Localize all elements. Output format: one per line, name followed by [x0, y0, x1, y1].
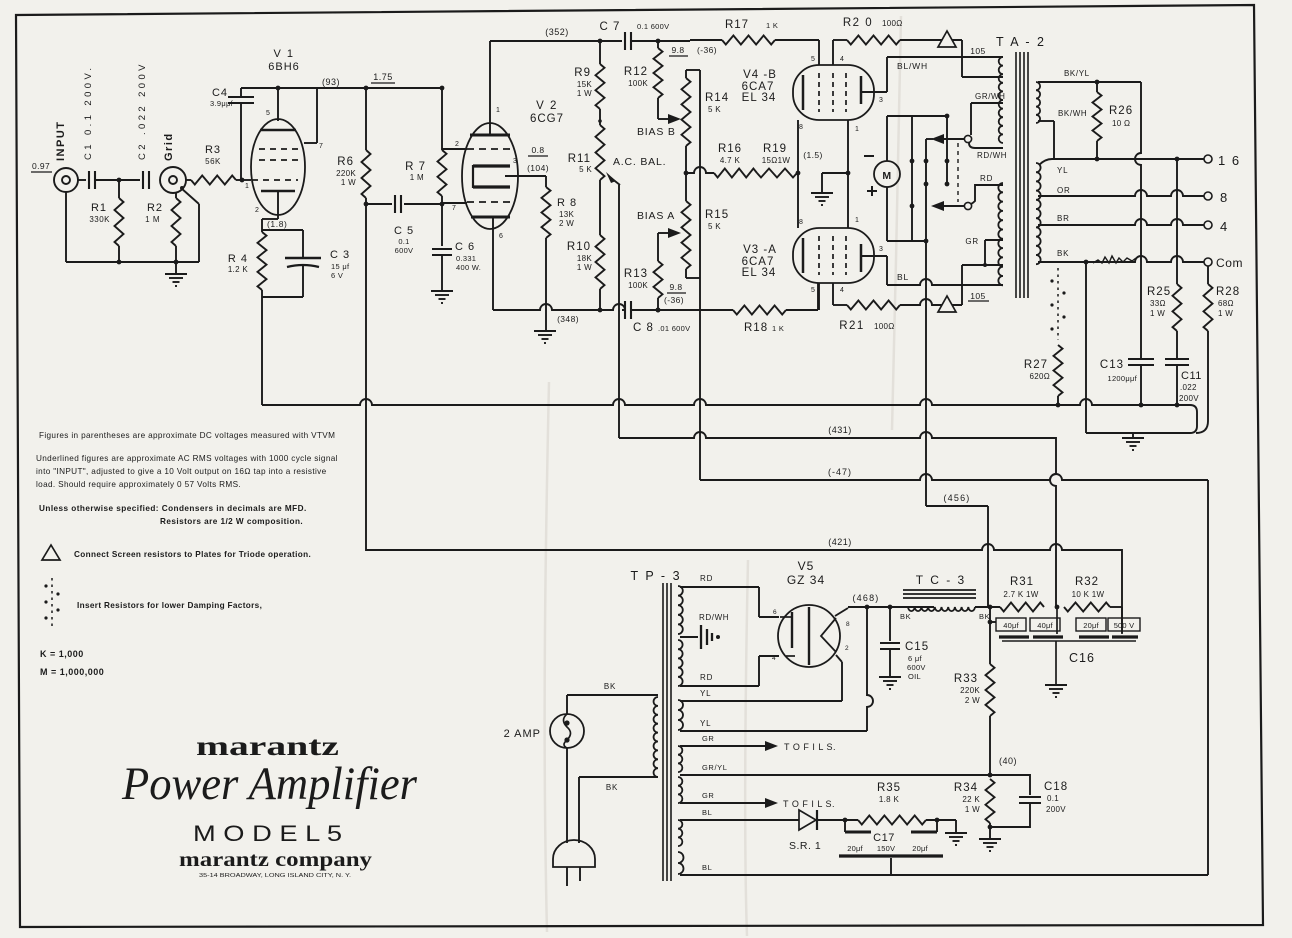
- svg-text:BK: BK: [606, 783, 618, 792]
- svg-text:20μf: 20μf: [912, 844, 928, 853]
- svg-text:V3 -A: V3 -A: [743, 244, 777, 256]
- legend K and M definitions: [40, 649, 104, 677]
- fold creases: [545, 16, 901, 936]
- svg-text:marantz company: marantz company: [179, 849, 372, 871]
- svg-text:Resistors are 1/2 W compositio: Resistors are 1/2 W composition.: [160, 517, 303, 526]
- svg-text:0.1: 0.1: [398, 237, 409, 246]
- terminal 4: [1204, 219, 1228, 234]
- svg-text:(468): (468): [852, 593, 879, 603]
- 8 ohm line: [1038, 190, 1204, 196]
- terminal Com: [1204, 256, 1243, 270]
- svg-text:V4 -B: V4 -B: [743, 69, 777, 81]
- fuse 2 AMP: [504, 714, 584, 748]
- svg-text:BL: BL: [702, 863, 712, 872]
- svg-text:BR: BR: [1057, 214, 1070, 223]
- svg-text:GR: GR: [702, 734, 714, 743]
- svg-text:.01 600V: .01 600V: [658, 324, 690, 333]
- svg-text:C1 0.1 200V.: C1 0.1 200V.: [83, 65, 94, 160]
- resistor R20 100ohm screen: [833, 17, 962, 45]
- meter M: [864, 156, 900, 196]
- node 9.8 / (-36) lower: [664, 282, 686, 305]
- wire jack shell to ground bus: [180, 186, 199, 262]
- svg-text:R14: R14: [705, 92, 729, 104]
- svg-text:V 2: V 2: [536, 100, 558, 112]
- svg-text:35-14 BROADWAY, LONG ISLAND: 35-14 BROADWAY, LONG ISLAND CITY, N. Y.: [199, 873, 352, 879]
- svg-text:RD: RD: [700, 673, 713, 682]
- wire BK primary top: [567, 682, 658, 714]
- svg-text:C18: C18: [1044, 781, 1068, 793]
- svg-text:RD/WH: RD/WH: [699, 613, 729, 622]
- svg-text:5 K: 5 K: [579, 165, 592, 174]
- triangle marker top (triode strap): [938, 31, 956, 47]
- svg-text:56K: 56K: [205, 157, 221, 166]
- svg-text:6: 6: [499, 233, 504, 240]
- tube V2 6CG7: [452, 100, 564, 240]
- wire YL2: [680, 607, 873, 731]
- svg-text:1 W: 1 W: [577, 263, 592, 272]
- TA-2 secondary winding: [1036, 82, 1041, 264]
- svg-text:8: 8: [1220, 190, 1228, 205]
- svg-text:R2 0: R2 0: [843, 17, 873, 29]
- wire BK primary bottom: [579, 777, 658, 843]
- wire GR1 to fils: [680, 734, 836, 752]
- svg-text:20μf: 20μf: [1083, 621, 1099, 630]
- svg-text:1.75: 1.75: [373, 72, 393, 82]
- svg-text:6CG7: 6CG7: [530, 113, 564, 125]
- svg-text:2: 2: [455, 141, 460, 148]
- svg-text:6 μf: 6 μf: [908, 654, 922, 663]
- svg-text:200V: 200V: [1046, 805, 1066, 814]
- tube V5 GZ34: [772, 559, 850, 667]
- svg-text:40μf: 40μf: [1037, 621, 1053, 630]
- resistor R6 220K 1W: [336, 86, 370, 207]
- input jack J1: [54, 121, 78, 193]
- svg-text:20μf: 20μf: [847, 844, 863, 853]
- B+ rail (431): [619, 432, 1056, 607]
- svg-text:4: 4: [772, 655, 776, 662]
- svg-text:BK/YL: BK/YL: [1064, 69, 1090, 78]
- B+ rail (421): [366, 204, 1122, 633]
- svg-text:5: 5: [266, 110, 271, 117]
- wire RD/WH tap to switch: [969, 143, 1007, 160]
- capacitor C11 .022 200V: [1165, 359, 1202, 407]
- triangle marker bottom: [938, 296, 956, 312]
- capacitor C16 multi-section: [988, 607, 1140, 684]
- wire 105 tap top: [962, 40, 1003, 77]
- notes text block: [36, 431, 338, 526]
- svg-text:R13: R13: [624, 268, 648, 280]
- TP-3 core: [663, 583, 671, 881]
- resistor R16 4.7K: [686, 143, 757, 178]
- ground: [945, 832, 967, 834]
- resistor R13 100K: [624, 233, 663, 312]
- svg-text:C 6: C 6: [455, 241, 475, 253]
- svg-text:R32: R32: [1075, 576, 1099, 588]
- svg-text:R 8: R 8: [557, 197, 577, 209]
- svg-text:1.2 K: 1.2 K: [228, 265, 249, 274]
- svg-text:6 V: 6 V: [331, 271, 343, 280]
- wire fuse to plug: [566, 748, 568, 843]
- svg-text:EL 34: EL 34: [742, 92, 777, 104]
- resistor R4 1.2K: [228, 219, 267, 405]
- svg-text:600V: 600V: [907, 663, 926, 672]
- svg-text:T A - 2: T A - 2: [996, 35, 1046, 49]
- svg-text:0.8: 0.8: [531, 145, 544, 155]
- common line with scrawled resistor mark: [1038, 256, 1204, 264]
- wire input jack to C1: [78, 179, 86, 181]
- svg-text:100Ω: 100Ω: [874, 322, 895, 331]
- svg-text:7: 7: [452, 205, 457, 212]
- svg-text:2: 2: [845, 645, 849, 652]
- svg-text:1: 1: [245, 183, 250, 190]
- capacitor C6 0.331 400W: [432, 204, 481, 290]
- legend triangle symbol: [42, 545, 311, 560]
- svg-text:T P - 3: T P - 3: [630, 569, 681, 583]
- svg-text:2.7 K 1W: 2.7 K 1W: [1003, 590, 1038, 599]
- svg-text:BK: BK: [604, 682, 616, 691]
- svg-text:5 K: 5 K: [708, 105, 721, 114]
- resistor R17 1K grid stopper: [690, 19, 819, 45]
- svg-text:100Ω: 100Ω: [882, 19, 903, 28]
- terminal 8: [1204, 190, 1228, 205]
- svg-text:BL: BL: [897, 272, 909, 282]
- resistor R12 100K: [624, 41, 668, 119]
- svg-text:C 8: C 8: [633, 322, 654, 334]
- svg-text:YL: YL: [1057, 166, 1068, 175]
- svg-text:INPUT: INPUT: [55, 121, 67, 162]
- switch wiper lower: [931, 201, 972, 211]
- wire BK/YL tap to C13 column: [1038, 69, 1141, 84]
- svg-text:RD: RD: [700, 574, 713, 583]
- diode SR.1: [680, 808, 821, 852]
- wire GR2 to fils: [680, 791, 835, 809]
- svg-text:68Ω: 68Ω: [1218, 299, 1234, 308]
- svg-text:T C - 3: T C - 3: [916, 573, 966, 587]
- svg-text:1 6: 1 6: [1218, 153, 1241, 168]
- svg-text:1 W: 1 W: [965, 805, 980, 814]
- svg-text:C2 .022 200V: C2 .022 200V: [137, 61, 148, 160]
- node 0.8 / (104) labels: [527, 145, 549, 173]
- capacitor C18 0.1 200V: [990, 775, 1068, 827]
- wire V2 grid2 to C5 node: [442, 202, 467, 204]
- svg-text:7: 7: [319, 143, 324, 150]
- svg-text:C17: C17: [873, 832, 895, 844]
- svg-text:V5: V5: [798, 559, 815, 573]
- svg-text:R11: R11: [568, 153, 591, 165]
- svg-text:R9: R9: [574, 67, 591, 79]
- svg-text:BK/WH: BK/WH: [1058, 109, 1087, 118]
- svg-text:1 M: 1 M: [410, 173, 424, 182]
- svg-text:100K: 100K: [628, 281, 648, 290]
- svg-text:8: 8: [799, 219, 804, 226]
- svg-text:105: 105: [970, 46, 985, 56]
- wire BK/YL column to C13: [1135, 82, 1141, 359]
- svg-text:22 K: 22 K: [962, 795, 980, 804]
- svg-text:(456): (456): [943, 493, 970, 503]
- svg-text:Com: Com: [1216, 256, 1243, 270]
- svg-text:BL/WH: BL/WH: [897, 61, 928, 71]
- svg-text:0.97: 0.97: [32, 161, 50, 171]
- capacitor C5 0.1 600V: [366, 195, 444, 255]
- wire cathodes V4-V3: [797, 120, 799, 228]
- svg-text:1: 1: [855, 217, 860, 224]
- wire V5 pin2 to heater winding: [836, 655, 842, 701]
- svg-text:9.8: 9.8: [669, 282, 682, 292]
- svg-text:5: 5: [811, 56, 816, 63]
- tube V3-A 6CA7 EL34: [742, 217, 887, 310]
- svg-text:1: 1: [496, 107, 501, 114]
- capacitor C3 15uf bypass: [262, 230, 350, 297]
- switch contact column B upper: [924, 116, 950, 186]
- resistor R9 15K 1W: [574, 41, 604, 109]
- svg-text:GZ 34: GZ 34: [787, 573, 825, 587]
- svg-text:R33: R33: [954, 673, 978, 685]
- svg-text:1: 1: [855, 126, 860, 133]
- ground bus of input stage: [66, 192, 199, 273]
- svg-text:R27: R27: [1024, 359, 1048, 371]
- svg-text:Underlined figures are appro: Underlined figures are approximate AC RM…: [36, 454, 338, 463]
- svg-text:R17: R17: [725, 19, 749, 31]
- wire V2 pin6 down to coupling line: [492, 217, 494, 310]
- resistor R26 10ohm: [1093, 82, 1134, 159]
- svg-text:8: 8: [799, 124, 804, 131]
- svg-text:0.1: 0.1: [1047, 794, 1059, 803]
- svg-text:6BH6: 6BH6: [268, 61, 300, 73]
- svg-text:4.7 K: 4.7 K: [720, 156, 741, 165]
- resistor R32 10K 1W: [1064, 576, 1122, 612]
- capacitor C13 1200uuf: [1100, 359, 1154, 407]
- grid jack: [160, 132, 186, 193]
- resistor R25 33ohm 1W: [1147, 159, 1182, 359]
- svg-text:R10: R10: [567, 241, 591, 253]
- svg-text:EL 34: EL 34: [742, 267, 777, 279]
- resistor R34 22K 1W: [954, 779, 995, 838]
- svg-text:GR: GR: [965, 237, 979, 246]
- svg-text:C11: C11: [1181, 370, 1202, 382]
- tube V4-B 6CA7 EL34: [742, 40, 887, 133]
- svg-text:2: 2: [255, 207, 260, 214]
- svg-text:1 W: 1 W: [577, 89, 592, 98]
- svg-text:(40): (40): [999, 756, 1017, 766]
- svg-text:OIL: OIL: [908, 672, 921, 681]
- svg-text:15 μf: 15 μf: [331, 262, 350, 271]
- svg-text:10 K 1W: 10 K 1W: [1072, 590, 1105, 599]
- svg-text:9.8: 9.8: [671, 45, 684, 55]
- ground: [165, 273, 187, 275]
- svg-text:R25: R25: [1147, 286, 1171, 298]
- potentiometer R14 5K BIAS B: [682, 70, 730, 146]
- ground: [534, 330, 556, 332]
- svg-text:40μf: 40μf: [1003, 621, 1019, 630]
- svg-text:C13: C13: [1100, 359, 1124, 371]
- svg-text:RD/WH: RD/WH: [977, 151, 1007, 160]
- svg-text:3.9μμf: 3.9μμf: [210, 99, 234, 108]
- svg-text:1 W: 1 W: [1218, 309, 1233, 318]
- meter bottom lead: [887, 187, 928, 243]
- svg-text:C 3: C 3: [330, 249, 350, 261]
- svg-text:33Ω: 33Ω: [1150, 299, 1166, 308]
- capacitor C4 3.9uuf: [210, 87, 254, 180]
- svg-text:2 AMP: 2 AMP: [504, 728, 541, 740]
- resistor R18 1K: [733, 283, 818, 334]
- svg-text:R3: R3: [205, 144, 221, 156]
- svg-text:100K: 100K: [628, 79, 648, 88]
- svg-text:GR: GR: [702, 791, 714, 800]
- svg-text:4: 4: [840, 56, 845, 63]
- TA-2 core: [1016, 52, 1028, 298]
- wire Com to ground loop: [1085, 262, 1087, 433]
- svg-text:0.1 600V: 0.1 600V: [637, 22, 669, 31]
- resistor R7 1M: [405, 86, 446, 204]
- svg-text:Connect Screen resistors to P: Connect Screen resistors to Plates for T…: [74, 550, 311, 559]
- svg-text:marantz: marantz: [196, 731, 339, 761]
- svg-text:330K: 330K: [89, 215, 110, 224]
- coupling line (348) with C8: [493, 304, 625, 324]
- svg-text:C15: C15: [905, 641, 929, 653]
- svg-text:YL: YL: [700, 689, 711, 698]
- wire RD top to V5 plate: [680, 574, 779, 617]
- svg-text:2 W: 2 W: [965, 696, 980, 705]
- svg-text:(-47): (-47): [828, 467, 852, 477]
- svg-text:620Ω: 620Ω: [1029, 372, 1050, 381]
- resistor R31 2.7K 1W: [1000, 576, 1059, 612]
- svg-text:(-36): (-36): [664, 295, 684, 305]
- svg-text:10 Ω: 10 Ω: [1112, 119, 1130, 128]
- svg-text:C 7: C 7: [600, 21, 621, 33]
- svg-text:YL: YL: [700, 719, 711, 728]
- ground: [811, 192, 833, 194]
- svg-text:R19: R19: [763, 143, 787, 155]
- svg-text:(421): (421): [828, 537, 852, 547]
- 4 ohm line: [1038, 219, 1204, 225]
- svg-text:1 M: 1 M: [145, 215, 160, 224]
- svg-text:1 W: 1 W: [1150, 309, 1165, 318]
- svg-text:M O D E L 5: M O D E L 5: [193, 821, 342, 846]
- svg-text:4: 4: [840, 287, 845, 294]
- capacitor C15 6uf 600V OIL: [880, 607, 929, 681]
- ground: [1045, 684, 1067, 686]
- svg-text:C 5: C 5: [394, 225, 414, 237]
- svg-text:(1.8): (1.8): [267, 219, 287, 229]
- svg-text:BIAS B: BIAS B: [637, 126, 676, 138]
- node A (456) junction: [988, 605, 993, 610]
- svg-text:T O F I L S.: T O F I L S.: [784, 742, 836, 752]
- svg-text:.022: .022: [1180, 383, 1197, 392]
- svg-text:T O F I L S.: T O F I L S.: [783, 799, 835, 809]
- svg-text:3: 3: [513, 158, 518, 165]
- 16 ohm line: [1039, 157, 1204, 165]
- svg-text:R16: R16: [718, 143, 742, 155]
- wire RD tap to switch: [971, 174, 1003, 204]
- tube V1 6BH6: [245, 48, 305, 219]
- svg-text:150V: 150V: [877, 844, 895, 853]
- resistor R28 68ohm 1W: [1196, 266, 1240, 433]
- svg-text:8: 8: [846, 621, 850, 628]
- wire V2 grid pin2 to R7 top: [442, 148, 467, 150]
- svg-text:BIAS A: BIAS A: [637, 210, 675, 222]
- resistor R10 18K 1W: [567, 180, 605, 312]
- B+ rail (456): [926, 139, 988, 607]
- legend damping symbol: [44, 578, 262, 628]
- ground: [431, 290, 453, 292]
- svg-text:M: M: [882, 170, 891, 182]
- svg-text:BL: BL: [702, 808, 712, 817]
- svg-text:R26: R26: [1109, 105, 1133, 117]
- svg-text:3: 3: [879, 246, 884, 253]
- svg-text:13K: 13K: [559, 210, 574, 219]
- capacitor C1: [83, 65, 95, 189]
- svg-text:(352): (352): [545, 27, 569, 37]
- svg-text:BK: BK: [900, 612, 911, 621]
- TP-3 primary winding: [654, 697, 658, 777]
- svg-text:1 K: 1 K: [772, 324, 784, 333]
- wire GR tap: [965, 237, 1003, 265]
- resistor R19 15ohm 1W: [757, 143, 800, 178]
- resistor R2 1M: [145, 193, 180, 262]
- svg-text:Insert Resistors for lower: Insert Resistors for lower Damping Facto…: [77, 601, 262, 610]
- svg-text:220K: 220K: [336, 169, 356, 178]
- svg-text:BK: BK: [979, 612, 990, 621]
- potentiometer R15 5K BIAS A: [682, 146, 730, 278]
- AC plug: [553, 840, 595, 886]
- svg-text:R2: R2: [147, 202, 163, 214]
- node 9.8 / (-36) upper: [669, 45, 717, 56]
- svg-text:200V: 200V: [1179, 394, 1199, 403]
- svg-text:(104): (104): [527, 163, 549, 173]
- svg-text:OR: OR: [1057, 186, 1071, 195]
- TA-2 primary winding: [998, 57, 1003, 285]
- svg-text:105: 105: [970, 291, 985, 301]
- wire V4 plate BL/WH to transformer: [887, 57, 1003, 71]
- svg-text:into "INPUT", adjusted to give: into "INPUT", adjusted to give a 10 Volt…: [36, 467, 327, 476]
- svg-text:400 W.: 400 W.: [456, 263, 481, 272]
- wire V1 screen pin 7 to rail: [304, 88, 324, 150]
- svg-text:220K: 220K: [960, 686, 980, 695]
- resistor R33 220K 2W: [954, 622, 995, 777]
- wire GR/WH tap to switch: [971, 92, 1006, 135]
- choke TC-3: [903, 573, 1000, 621]
- svg-text:Unless otherwise specified:: Unless otherwise specified: Condensers i…: [39, 504, 307, 513]
- wire V3 plate BL to transformer: [887, 272, 1003, 285]
- svg-text:3: 3: [879, 97, 884, 104]
- capacitor C2: [137, 61, 149, 189]
- wire BL bottom bias return: [680, 863, 1208, 875]
- TP-3 secondary windings: [678, 586, 684, 874]
- svg-text:(93): (93): [322, 77, 340, 87]
- svg-text:R34: R34: [954, 782, 978, 794]
- wire 105 tap bottom: [962, 263, 1003, 305]
- resistor R3 56K: [186, 144, 251, 185]
- switch contact column A: [910, 116, 915, 241]
- wire GR/YL center to node 40: [680, 763, 990, 775]
- svg-text:4: 4: [1220, 219, 1228, 234]
- svg-text:1 W: 1 W: [341, 178, 356, 187]
- svg-text:(431): (431): [828, 425, 852, 435]
- svg-text:R6: R6: [337, 156, 354, 168]
- svg-text:load. Should require approxi: load. Should require approximately 0 57 …: [36, 480, 241, 489]
- resistor R1 330K: [89, 180, 123, 262]
- svg-text:K = 1,000: K = 1,000: [40, 649, 84, 659]
- wire RD bottom to V5 plate: [680, 656, 779, 686]
- svg-text:R 4: R 4: [228, 253, 248, 265]
- wire BK/WH tap: [1038, 109, 1087, 159]
- wire RD/WH center tap: [680, 613, 729, 649]
- terminal 16: [1204, 153, 1241, 168]
- svg-text:M = 1,000,000: M = 1,000,000: [40, 667, 104, 677]
- potentiometer R11 5K A.C. BAL.: [568, 109, 667, 185]
- capacitor C17 dual 20uf 150V: [839, 820, 943, 875]
- svg-text:18K: 18K: [577, 254, 592, 263]
